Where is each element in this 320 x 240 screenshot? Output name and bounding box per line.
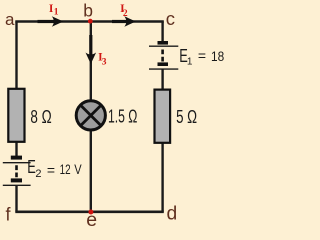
svg-text:2: 2 (35, 168, 41, 180)
svg-text:b: b (83, 0, 93, 20)
svg-text:e: e (86, 209, 97, 228)
svg-text:12: 12 (60, 161, 71, 177)
svg-text:18: 18 (211, 48, 224, 64)
svg-text:V: V (74, 161, 82, 177)
svg-text:c: c (166, 8, 175, 29)
svg-text:2: 2 (123, 9, 128, 19)
svg-text:1.5 Ω: 1.5 Ω (108, 107, 137, 127)
svg-text:a: a (5, 10, 15, 29)
svg-text:=: = (198, 48, 206, 64)
svg-text:1: 1 (187, 56, 193, 67)
svg-text:5 Ω: 5 Ω (176, 107, 197, 127)
svg-text:=: = (47, 162, 55, 178)
svg-text:3: 3 (102, 58, 107, 68)
svg-text:8 Ω: 8 Ω (30, 107, 51, 127)
svg-text:1: 1 (54, 8, 59, 18)
svg-text:d: d (167, 204, 178, 225)
